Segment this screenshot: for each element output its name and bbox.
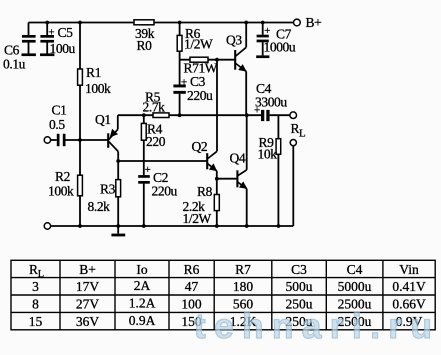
wire top B+ rail left segment [29, 22, 135, 24]
svg-text:B+: B+ [79, 262, 96, 277]
svg-text:0.5: 0.5 [49, 117, 65, 132]
wire C3 top lead [179, 60, 181, 85]
wire top B+ rail right segment [154, 22, 293, 24]
svg-text:0.1u: 0.1u [3, 57, 26, 72]
wire RL lower terminal to ground rail [292, 146, 294, 226]
svg-text:+: + [145, 164, 151, 176]
node output junction Q3/Q4 [245, 113, 249, 117]
wire output node horizontal y=115 [118, 114, 261, 116]
svg-text:1/2W: 1/2W [183, 211, 212, 226]
node R7 right junction [215, 58, 219, 62]
table grid [11, 260, 435, 330]
wire R8 top lead [216, 179, 218, 195]
wire Q1 collector vertical [117, 152, 119, 162]
svg-text:C3: C3 [291, 262, 307, 277]
transistor Q4 NPN arrow [239, 181, 247, 189]
wire R9 bottom lead [277, 154, 279, 226]
svg-text:+: + [181, 76, 187, 88]
svg-text:3300u: 3300u [255, 95, 287, 110]
node input base junction [78, 138, 82, 142]
svg-text:Q1: Q1 [95, 112, 111, 127]
svg-text:C4: C4 [347, 262, 363, 277]
svg-text:R6: R6 [184, 262, 200, 277]
transistor Q4 base bar [236, 170, 238, 187]
resistor R3 body [116, 180, 121, 197]
wire C7 bottom lead [262, 42, 264, 55]
wire R3 bottom lead [117, 197, 119, 226]
svg-text:R8: R8 [197, 184, 213, 199]
terminal RL lower [290, 140, 296, 146]
svg-text:8: 8 [32, 297, 39, 312]
svg-text:3: 3 [32, 279, 39, 294]
wire input terminal to C1 [51, 139, 57, 141]
wire C4 right to RL terminal [270, 114, 290, 116]
wire R1 bottom lead to input node [79, 85, 81, 140]
node C3 bottom junction [178, 113, 182, 117]
wire R1 top lead [79, 23, 81, 70]
svg-text:R: R [29, 262, 38, 277]
node top rail C7 [261, 21, 265, 25]
transistor Q1 base bar [107, 133, 109, 148]
svg-text:+: + [48, 26, 54, 38]
wire R8 bottom lead [216, 211, 218, 226]
node rail R3 [116, 224, 120, 228]
svg-text:10k: 10k [258, 147, 278, 162]
capacitor C7 plates [257, 35, 269, 43]
wire R2 top lead [79, 140, 81, 175]
node top rail C5 [45, 21, 49, 25]
terminal input ground [44, 223, 50, 229]
transistor Q2 NPN arrow [209, 163, 217, 171]
node rail C2 [142, 224, 146, 228]
wire node A horizontal (Q1 collector to Q2 base) [118, 160, 207, 162]
wire R4 top lead [143, 115, 145, 123]
ground bar under C5 [40, 53, 54, 56]
svg-text:1/2W: 1/2W [184, 37, 213, 52]
node rail R2 [78, 224, 82, 228]
svg-text:1.2A: 1.2A [129, 296, 156, 311]
svg-text:Q2: Q2 [192, 139, 208, 154]
svg-text:Q3: Q3 [226, 33, 242, 48]
svg-text:0.41V: 0.41V [392, 279, 426, 294]
svg-text:27V: 27V [76, 297, 100, 312]
svg-text:220: 220 [146, 134, 166, 149]
svg-text:15: 15 [29, 314, 43, 329]
wire Q4 emitter vertical [246, 189, 248, 226]
node Q1 collector junction [116, 159, 120, 163]
wire R9 top lead [277, 115, 279, 139]
resistor R8 body [214, 195, 219, 211]
svg-text:Q4: Q4 [230, 151, 246, 166]
node R4/R5 junction [142, 113, 146, 117]
wire C2 top lead [143, 161, 145, 175]
wire C3 bottom lead [179, 94, 181, 115]
wire C2 bottom lead [143, 184, 145, 226]
svg-text:R2: R2 [55, 169, 70, 184]
wire bottom ground rail [51, 225, 293, 227]
svg-text:5000u: 5000u [338, 279, 372, 294]
wire ground stub [117, 226, 119, 234]
svg-text:220u: 220u [152, 184, 178, 199]
wire R4 bottom lead [143, 140, 145, 161]
node top rail R6 [178, 21, 182, 25]
transistor Q3 emitter diagonal [236, 64, 246, 72]
capacitor C1 plates [57, 134, 66, 146]
transistor Q3 NPN arrow [238, 64, 246, 72]
node top rail Q3 collector [244, 21, 248, 25]
transistor Q4 collector diagonal [238, 170, 247, 176]
wire Q1 emitter vertical [117, 115, 119, 129]
svg-text:R3: R3 [100, 182, 116, 197]
wire R6 top lead [179, 23, 181, 36]
svg-text:180: 180 [233, 279, 254, 294]
wire Q2 emitter to Q4 base [217, 178, 237, 180]
svg-text:C5: C5 [58, 25, 74, 40]
capacitor C2 plates [138, 175, 150, 184]
node rail R9 [277, 224, 281, 228]
resistor R6 body [177, 35, 182, 51]
resistor R2 body [78, 175, 83, 196]
svg-text:R1: R1 [86, 65, 101, 80]
svg-text:0.9A: 0.9A [129, 313, 156, 328]
wire C5 top stub [46, 23, 48, 36]
wire C5 bottom lead [46, 42, 48, 54]
capacitor C6 plates [22, 35, 36, 43]
table text [29, 262, 426, 329]
wire Q3 collector vertical [245, 23, 247, 48]
transistor Q2 collector diagonal [208, 151, 217, 158]
svg-text:R0: R0 [137, 38, 153, 53]
resistor R5 body [153, 113, 169, 118]
svg-text:C6: C6 [4, 42, 20, 57]
svg-text:47: 47 [185, 279, 199, 294]
svg-text:L: L [299, 128, 306, 140]
ground bar under C6 [22, 53, 36, 56]
transistor Q1 PNP arrow [110, 129, 118, 138]
svg-text:500u: 500u [286, 279, 313, 294]
wire C7 top stub [262, 23, 264, 35]
watermark tehnari.ru [194, 307, 440, 346]
transistor Q1 emitter diagonal [109, 129, 118, 139]
svg-text:R7: R7 [235, 262, 251, 277]
transistor Q2 base bar [206, 153, 208, 169]
resistor R4 body [141, 123, 146, 140]
ground bar under C7 [256, 55, 269, 58]
svg-text:17V: 17V [76, 279, 100, 294]
resistor R1 body [78, 69, 83, 85]
capacitor C4 plates [261, 110, 270, 121]
node top rail R1 [78, 21, 82, 25]
svg-text:Vin: Vin [399, 262, 419, 277]
svg-text:2A: 2A [134, 278, 151, 293]
svg-text:C1: C1 [52, 103, 67, 118]
wire R3 top lead [117, 161, 119, 180]
svg-text:8.2k: 8.2k [88, 199, 111, 214]
wire C1 to Q1 base [66, 139, 108, 141]
svg-text:Io: Io [136, 262, 147, 277]
svg-text:1000u: 1000u [264, 40, 296, 55]
node rail R8 [215, 224, 219, 228]
transistor Q3 collector diagonal [236, 47, 246, 56]
wire R7 row (R6 junction to Q3 base) [180, 59, 235, 61]
svg-text:2.7k: 2.7k [143, 100, 166, 115]
node rail Q4 emitter [245, 224, 249, 228]
transistor Q3 base bar [234, 50, 236, 70]
svg-text:100k: 100k [48, 184, 74, 199]
wire Q2 emitter vertical [216, 171, 218, 179]
wire Q2 collector vertical to R7 node [216, 60, 218, 152]
wire Q3 emitter vertical [245, 71, 247, 115]
terminal RL upper [290, 112, 297, 119]
svg-text:100k: 100k [85, 81, 111, 96]
svg-text:B+: B+ [306, 15, 322, 30]
node Q2 emitter junction [215, 177, 219, 181]
resistor R7 body [190, 57, 208, 62]
resistor R0 body [134, 20, 154, 25]
wire R6 bottom lead [179, 51, 181, 60]
wire R2 bottom lead [79, 196, 81, 226]
svg-text:C3: C3 [190, 74, 206, 89]
transistor Q2 emitter diagonal [208, 164, 217, 171]
transistor Q4 emitter diagonal [238, 182, 247, 188]
capacitor C5 plates [40, 35, 54, 43]
transistor Q1 collector diagonal [109, 142, 118, 152]
terminal B+ [294, 19, 301, 26]
svg-text:100u: 100u [50, 41, 76, 56]
ground symbol bottom rail [111, 234, 125, 237]
capacitor C3 plates [173, 85, 185, 94]
wire C6 bottom lead [28, 42, 30, 54]
terminal input signal [44, 137, 50, 143]
svg-text:+: + [254, 105, 260, 117]
svg-text:tehnari.ru: tehnari.ru [194, 307, 440, 346]
resistor R9 body [276, 139, 281, 155]
svg-text:220u: 220u [187, 88, 213, 103]
svg-text:+: + [264, 25, 270, 37]
wire C6 top stub [28, 23, 30, 36]
wire Q4 collector vertical [246, 115, 248, 170]
svg-text:36V: 36V [76, 314, 100, 329]
